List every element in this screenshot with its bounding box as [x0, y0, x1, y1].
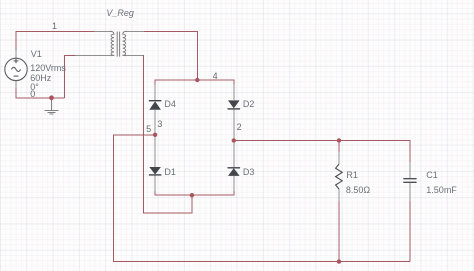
wire net3 from bridge left mid to load bottom: [114, 135, 411, 262]
wire R1 top stub: [338, 141, 340, 153]
value 8.50 ohms: [346, 185, 370, 195]
wire R1 bottom stub: [338, 202, 340, 262]
value 0 degrees: [30, 82, 39, 92]
value 1.50mF: [426, 185, 457, 195]
diode D4 cathode up: [149, 101, 162, 110]
wire transformer primary bottom return: [64, 56, 75, 98]
net label 1: [52, 21, 57, 31]
diode D3 cathode up: [228, 168, 241, 176]
ground: [45, 98, 59, 114]
label diode D3: [243, 167, 255, 177]
wire transformer secondary top to node4: [144, 31, 198, 80]
junction R1 top dot: [337, 138, 341, 142]
label diode D4: [164, 99, 176, 109]
transformer V_Reg: [110, 31, 127, 56]
wire net5 transformer secondary bottom down to bridge bottom: [143, 56, 192, 213]
wire V1 bottom to ground junction: [16, 88, 65, 98]
junction R1 bottom dot: [337, 259, 341, 263]
label resistor R1: [346, 170, 358, 180]
wire net1 top from V1 to transformer: [16, 31, 94, 50]
net label 2: [237, 122, 242, 132]
lead V1 pins: [15, 50, 17, 88]
lead bridge right rail segments: [233, 85, 235, 192]
net label 0: [30, 89, 35, 99]
wire node4 top rail of bridge: [155, 80, 234, 85]
net label 3: [157, 119, 162, 129]
resistor R1 zigzag: [336, 164, 343, 189]
lead transformer pins: [75, 31, 144, 55]
wire net2 from bridge right mid to load top: [234, 141, 410, 163]
diode D2 cathode down: [228, 100, 241, 109]
lead C1 pins: [409, 162, 411, 201]
junction bridge bottom dot: [190, 193, 194, 197]
wire bridge bottom rail: [155, 191, 234, 195]
net label 5: [146, 124, 151, 134]
capacitor C1 plates: [403, 179, 416, 183]
label transformer V_Reg: [106, 8, 134, 18]
lead bridge left rail segments: [154, 85, 156, 192]
label capacitor C1: [426, 170, 438, 180]
junction node3 dot left mid: [153, 133, 157, 137]
label diode D2: [243, 99, 255, 109]
diode D1 cathode down: [149, 167, 162, 175]
net label 4: [213, 71, 218, 81]
label diode D1: [164, 167, 176, 177]
junction node4 dot: [195, 78, 199, 82]
wire C1 bottom stub: [409, 201, 411, 262]
value 120Vrms: [30, 63, 66, 73]
junction ground dot: [49, 95, 54, 100]
value 60Hz: [30, 73, 51, 83]
source V1: [5, 58, 27, 80]
lead R1 pins: [338, 152, 340, 202]
label source V1: [31, 49, 42, 59]
junction node2 dot right mid: [232, 138, 236, 142]
